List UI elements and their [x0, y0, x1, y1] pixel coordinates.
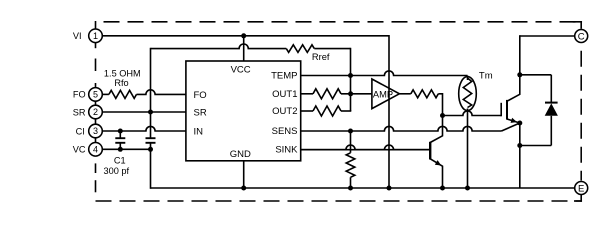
- svg-text:C: C: [578, 31, 585, 42]
- svg-text:5: 5: [93, 90, 98, 100]
- svg-text:1: 1: [93, 31, 98, 41]
- svg-text:CI: CI: [76, 126, 85, 136]
- svg-text:VI: VI: [73, 31, 82, 41]
- svg-text:300 pf: 300 pf: [104, 166, 130, 176]
- svg-text:SR: SR: [194, 108, 207, 119]
- svg-text:FO: FO: [73, 90, 86, 100]
- svg-text:IN: IN: [194, 127, 204, 138]
- svg-text:2: 2: [93, 107, 98, 117]
- svg-text:SENS: SENS: [272, 126, 298, 137]
- svg-text:SINK: SINK: [275, 145, 298, 156]
- svg-text:Tm: Tm: [479, 70, 493, 81]
- svg-text:E: E: [578, 183, 584, 194]
- svg-text:Rfo: Rfo: [114, 78, 128, 88]
- svg-text:VC: VC: [73, 145, 86, 155]
- svg-text:VCC: VCC: [231, 64, 251, 75]
- svg-text:GND: GND: [230, 149, 251, 160]
- svg-text:4: 4: [93, 145, 98, 155]
- svg-text:TEMP: TEMP: [271, 71, 297, 82]
- svg-text:OUT1: OUT1: [272, 89, 297, 100]
- svg-text:AMP: AMP: [373, 90, 393, 100]
- svg-text:3: 3: [93, 126, 98, 136]
- svg-text:C1: C1: [114, 156, 126, 166]
- svg-text:FO: FO: [194, 90, 207, 101]
- svg-text:SR: SR: [73, 107, 86, 117]
- svg-text:Rref: Rref: [312, 52, 330, 62]
- svg-text:OUT2: OUT2: [272, 106, 297, 117]
